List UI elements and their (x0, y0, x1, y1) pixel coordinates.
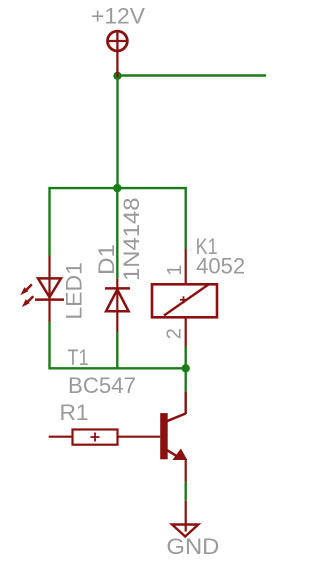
svg-text:+12V: +12V (91, 3, 145, 28)
wire diode branch upper (116, 188, 118, 278)
wire from supply down (116, 76, 118, 189)
supply symbol +12V (108, 31, 128, 77)
LED LED1 (35, 256, 64, 323)
wire diode branch lower (116, 332, 118, 370)
svg-text:LED1: LED1 (62, 262, 87, 320)
wire middle rail (50, 187, 186, 189)
svg-text:1: 1 (164, 264, 186, 275)
LED1 emission arrow 2 (22, 296, 34, 307)
junction at top rail (113, 72, 121, 80)
wire top rail to right edge (118, 74, 267, 76)
junction bottom rail (182, 364, 190, 372)
svg-text:T1: T1 (67, 345, 88, 370)
transistor T1 (160, 391, 186, 482)
resistor R1 (49, 430, 161, 445)
wire relay branch lower (184, 347, 186, 369)
svg-text:D1: D1 (94, 244, 119, 275)
relay coil K1 (152, 249, 217, 347)
svg-text:GND: GND (166, 534, 219, 559)
junction middle rail (113, 184, 121, 192)
wire emitter to ground (184, 482, 186, 501)
wire bottom rail (50, 367, 186, 369)
LED1 emission arrow 1 (20, 284, 32, 295)
diode D1 (105, 278, 130, 332)
svg-text:1N4148: 1N4148 (119, 198, 144, 282)
svg-text:4052: 4052 (196, 254, 245, 279)
svg-text:R1: R1 (60, 400, 89, 425)
svg-text:BC547: BC547 (68, 373, 136, 398)
wire LED branch upper (48, 187, 50, 256)
wire collector (184, 368, 186, 391)
svg-text:2: 2 (164, 328, 186, 339)
wire relay branch upper (184, 187, 186, 249)
wire LED branch lower (48, 322, 50, 370)
ground symbol (172, 501, 198, 537)
